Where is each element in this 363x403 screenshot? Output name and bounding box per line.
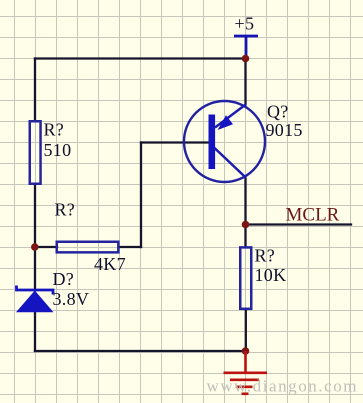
svg-text:3.8V: 3.8V: [53, 289, 90, 309]
svg-text:R?: R?: [55, 199, 76, 219]
svg-text:www.diangon.com: www.diangon.com: [207, 377, 359, 396]
svg-text:R?: R?: [44, 120, 65, 140]
svg-text:Q?: Q?: [267, 101, 289, 121]
svg-text:MCLR: MCLR: [286, 204, 340, 225]
svg-text:R?: R?: [255, 246, 276, 266]
svg-text:10K: 10K: [255, 265, 287, 285]
svg-text:D?: D?: [53, 269, 75, 289]
svg-text:+5: +5: [235, 14, 255, 34]
svg-text:510: 510: [44, 140, 72, 160]
svg-text:4K7: 4K7: [94, 254, 126, 274]
svg-text:9015: 9015: [266, 120, 303, 140]
